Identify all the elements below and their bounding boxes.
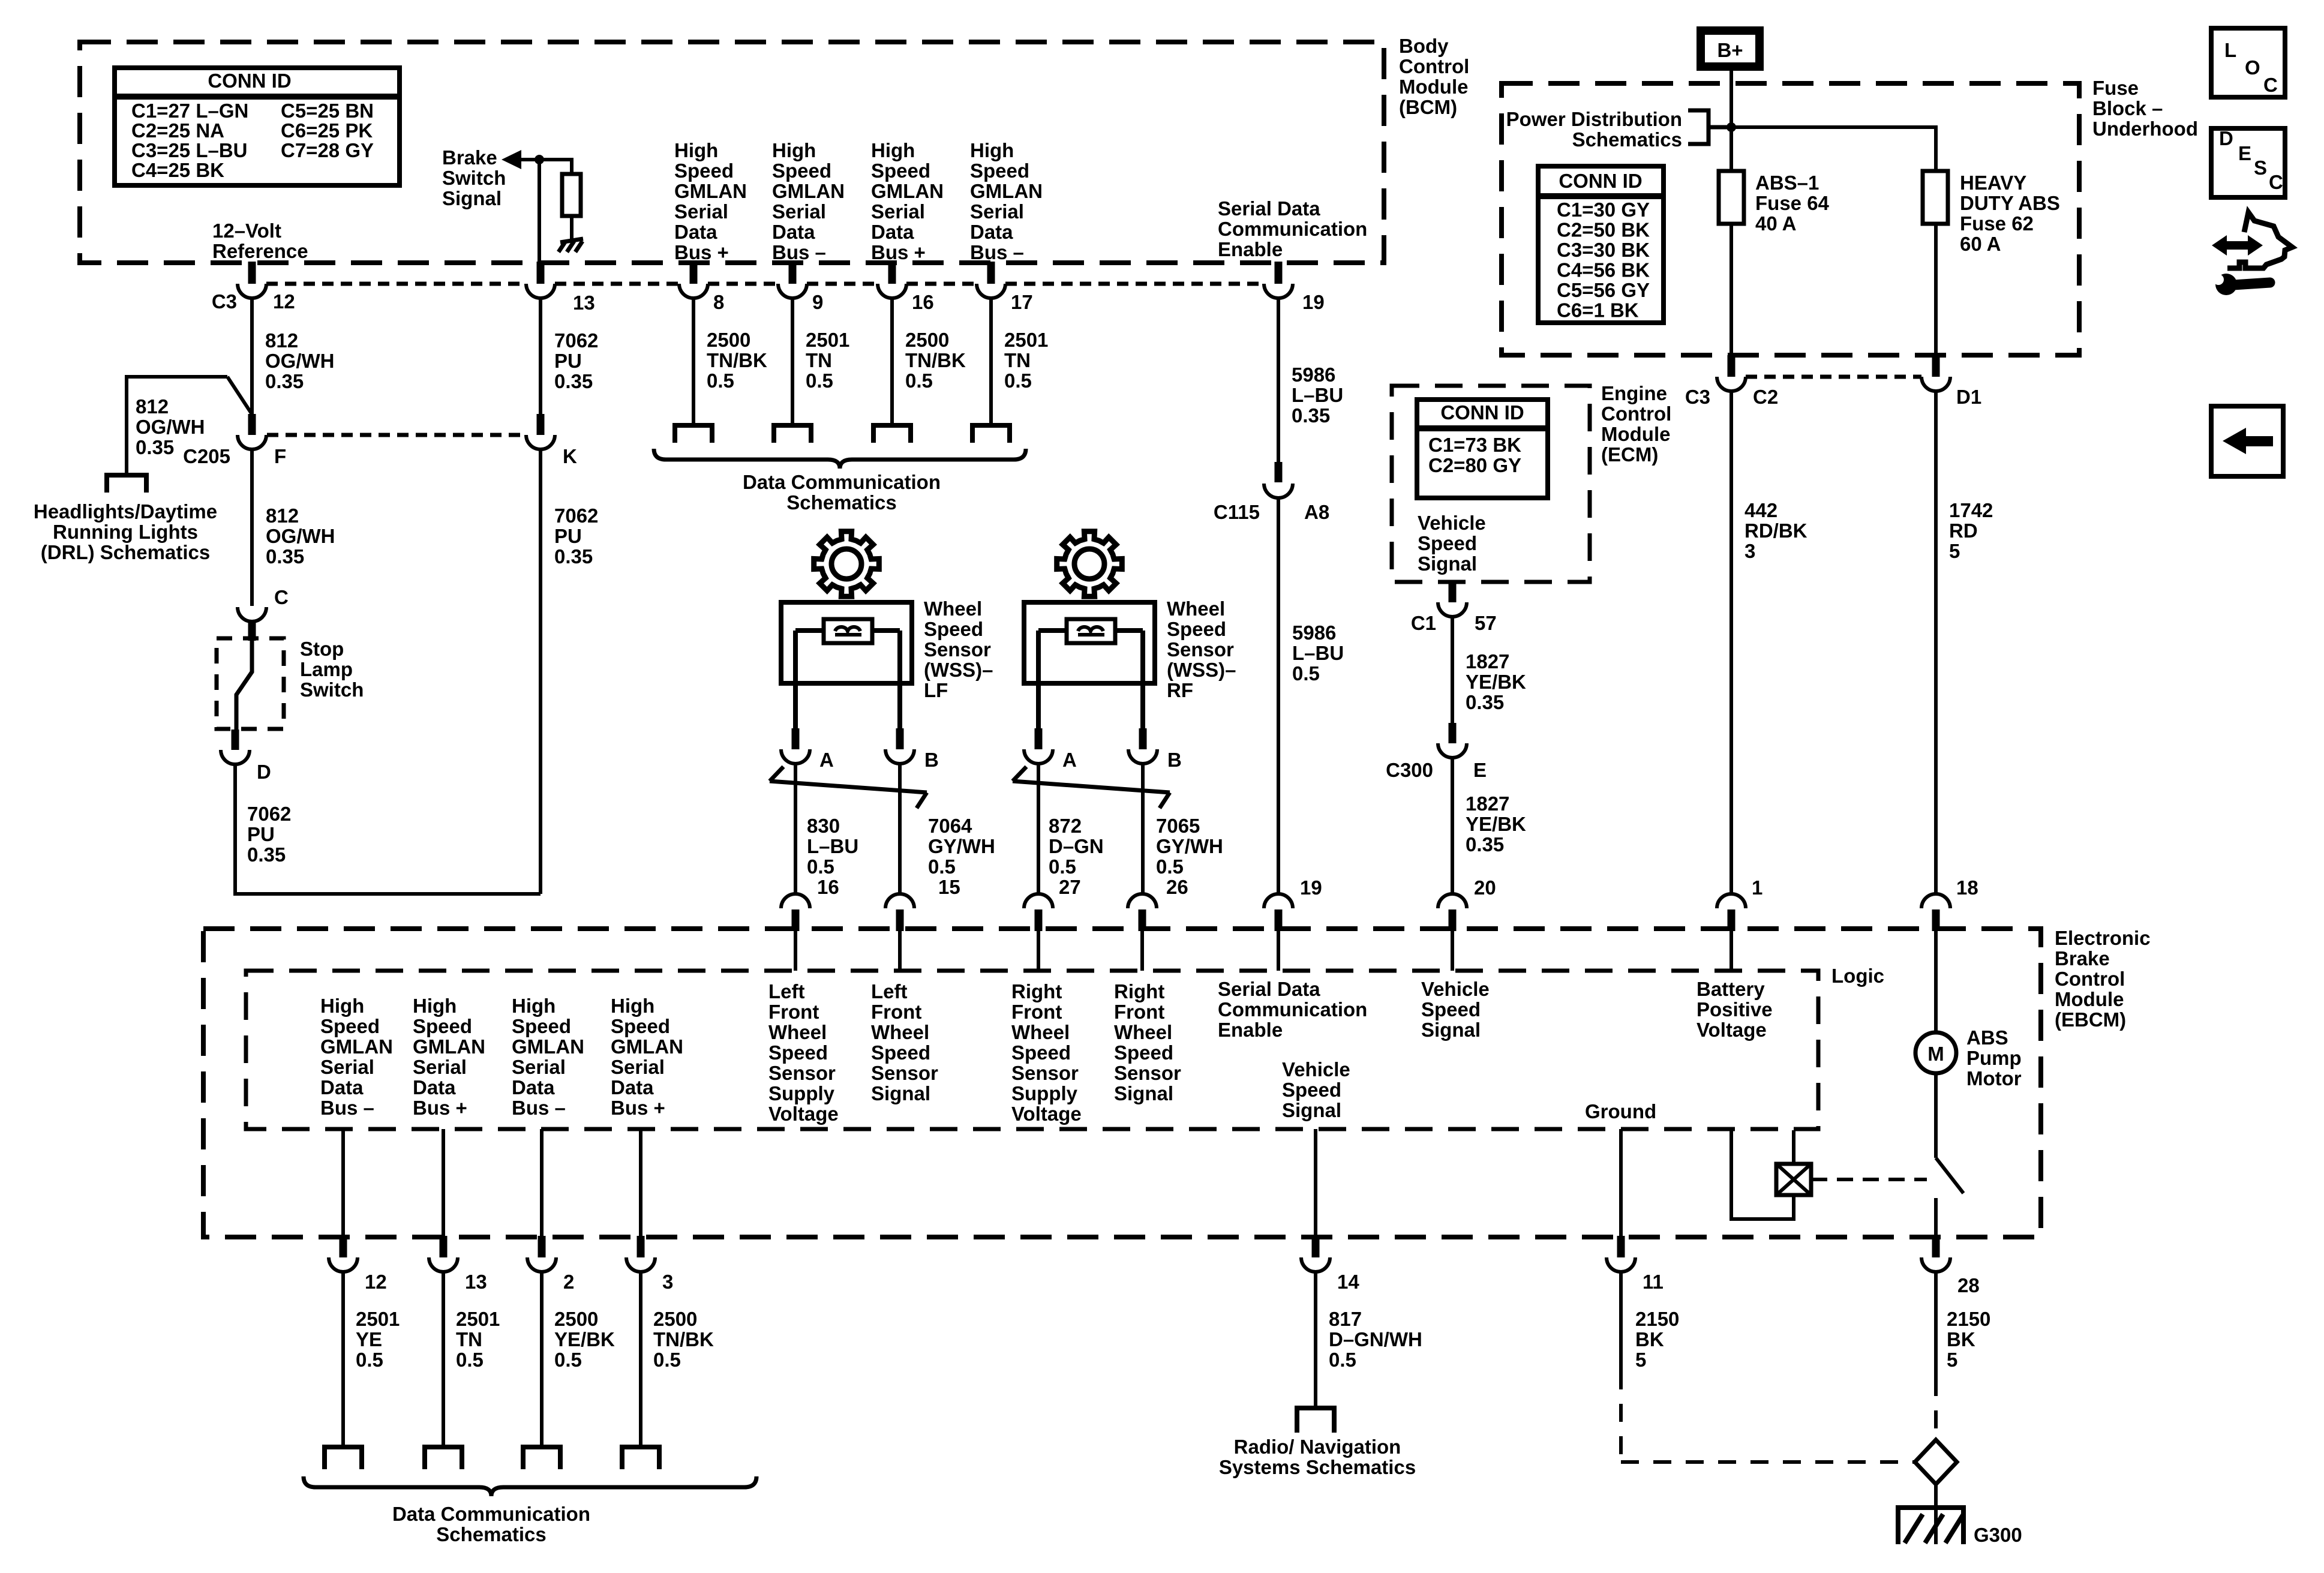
svg-text:Voltage: Voltage [1697, 1019, 1767, 1041]
svg-text:0.5: 0.5 [1329, 1349, 1356, 1371]
svg-text:C3=30 BK: C3=30 BK [1557, 239, 1650, 261]
svg-text:C6=25 PK: C6=25 PK [281, 119, 373, 142]
svg-text:0.5: 0.5 [806, 370, 833, 392]
label: High Speed GMLAN Serial Data Bus - (EBCM 12) [320, 995, 393, 1119]
svg-text:OG/WH: OG/WH [265, 350, 334, 372]
svg-text:57: 57 [1475, 612, 1497, 634]
arrow: brake switch signal (left) [502, 150, 521, 169]
wire: EBCM pin lead into logic at x=1500 [898, 931, 902, 971]
svg-text:5986: 5986 [1292, 364, 1335, 386]
label: 5986 L-BU 0.35 [1292, 364, 1343, 427]
svg-text:Communication: Communication [1218, 998, 1367, 1020]
module box: Stop Lamp Switch [217, 638, 284, 729]
label: Headlights/Daytime Running Lights (DRL) Schematics [34, 500, 217, 563]
wire: heavy duty ABS fuse output [1934, 224, 1938, 356]
svg-text:Front: Front [871, 1001, 921, 1023]
label: Electronic Brake Control Module (EBCM) [2055, 927, 2151, 1031]
svg-text:GMLAN: GMLAN [772, 180, 845, 202]
wire: 7062 PU from D down and right [235, 764, 541, 894]
svg-text:7064: 7064 [928, 815, 972, 837]
connector: C205 pin K [526, 414, 555, 449]
svg-text:GMLAN: GMLAN [674, 180, 747, 202]
svg-text:2150: 2150 [1947, 1308, 1990, 1330]
label: High Speed GMLAN Serial Data Bus + (BCM 16) [871, 139, 944, 263]
svg-text:5986: 5986 [1292, 622, 1336, 644]
svg-text:Voltage: Voltage [768, 1103, 839, 1125]
connector: stop lamp switch pin D [221, 730, 250, 764]
label: pins A / B (LF) [819, 749, 939, 771]
svg-text:Bus –: Bus – [320, 1097, 374, 1119]
connector: EBCM bottom pin 2 [527, 1236, 556, 1272]
svg-text:Serial Data: Serial Data [1218, 197, 1320, 220]
svg-text:0.5: 0.5 [807, 855, 834, 878]
svg-text:ABS: ABS [1966, 1026, 2008, 1049]
label: 7062 PU 0.35 (below K) [554, 505, 598, 568]
bracket: power distribution schematics [1688, 110, 1731, 144]
svg-text:0.35: 0.35 [1466, 691, 1504, 713]
svg-text:Wheel: Wheel [1167, 598, 1225, 620]
table: ECM CONN ID box [1417, 400, 1548, 498]
svg-text:(DRL) Schematics: (DRL) Schematics [41, 541, 210, 563]
svg-text:812: 812 [265, 329, 298, 352]
svg-text:Signal: Signal [1114, 1082, 1173, 1104]
wire: EBCM pin lead into logic at x=2886 [1730, 931, 1733, 971]
svg-text:Speed: Speed [413, 1015, 472, 1037]
svg-text:0.35: 0.35 [554, 370, 593, 392]
svg-text:19: 19 [1300, 876, 1322, 899]
wire: EBCM pin lead into logic at x=1904 [1140, 931, 1144, 971]
svg-text:Electronic: Electronic [2055, 927, 2151, 949]
svg-text:C5=25 BN: C5=25 BN [281, 100, 374, 122]
svg-text:D1: D1 [1956, 386, 1981, 408]
svg-text:D–GN/WH: D–GN/WH [1329, 1328, 1422, 1350]
wire: 7062 PU from K down [539, 449, 542, 894]
svg-text:Serial: Serial [970, 200, 1024, 223]
svg-text:7062: 7062 [554, 505, 598, 527]
wire: 812 OG/WH from F to stop lamp switch [250, 449, 254, 606]
label: High Speed GMLAN Serial Data Bus + (BCM 8) [674, 139, 747, 263]
label: C1 / 57 [1411, 612, 1497, 634]
svg-text:Vehicle: Vehicle [1282, 1058, 1350, 1080]
label: Fuse Block - Underhood [2092, 77, 2198, 140]
svg-text:Systems Schematics: Systems Schematics [1219, 1456, 1416, 1478]
fuse: ABS-1 Fuse 64 40 A [1719, 171, 1744, 224]
label: Data Communication Schematics (bottom) [392, 1503, 590, 1545]
wire: pin 18 to ABS pump motor [1934, 931, 1938, 1032]
terminal: GMLAN off-page at x=1156 [675, 425, 712, 443]
svg-text:Power Distribution: Power Distribution [1506, 108, 1682, 130]
svg-text:High: High [772, 139, 816, 161]
svg-text:C1=73 BK: C1=73 BK [1428, 434, 1521, 456]
icon: gear (tone wheel) RF [1057, 532, 1122, 597]
svg-text:Right: Right [1011, 980, 1062, 1002]
svg-text:Speed: Speed [512, 1015, 571, 1037]
wire: 812 branch diagonal to C205 F [227, 377, 253, 415]
svg-text:Supply: Supply [1011, 1082, 1078, 1104]
connector: WSS-RF pin B [1128, 728, 1157, 764]
svg-text:Data: Data [871, 221, 914, 243]
svg-text:0.5: 0.5 [1004, 370, 1032, 392]
svg-text:5: 5 [1635, 1349, 1646, 1371]
svg-text:Bus +: Bus + [413, 1097, 467, 1119]
svg-text:Signal: Signal [442, 187, 502, 209]
label: High Speed GMLAN Serial Data Bus + (EBCM 13) [413, 995, 485, 1119]
svg-text:2501: 2501 [1004, 329, 1048, 351]
wire: valve top lead [1792, 1130, 1795, 1164]
svg-text:Fuse 62: Fuse 62 [1960, 212, 2034, 235]
wire: 2150 BK ground (pin 28) solid part [1934, 1272, 1938, 1378]
svg-text:Speed: Speed [1167, 618, 1226, 640]
label: Body Control Module (BCM) [1399, 35, 1469, 118]
svg-text:20: 20 [1474, 876, 1496, 899]
wire: EBCM pin lead into logic at x=2421 [1451, 931, 1454, 971]
svg-text:Data: Data [674, 221, 717, 243]
svg-text:GMLAN: GMLAN [320, 1035, 393, 1058]
label: Serial Data Communication Enable (BCM) [1218, 197, 1367, 260]
brace: data communication schematics (top) [654, 449, 1026, 469]
svg-text:812: 812 [266, 505, 299, 527]
svg-text:CONN ID: CONN ID [208, 70, 291, 92]
label: 7062 PU 0.35 (pin 13) [554, 329, 598, 392]
connector: BCM pin 13 [526, 262, 555, 298]
terminal: GMLAN off-page at x=1487 [873, 425, 911, 443]
svg-text:GMLAN: GMLAN [871, 180, 944, 202]
label: ECM CONN ID rows [1428, 434, 1521, 476]
svg-text:Schematics: Schematics [786, 491, 896, 514]
svg-text:Speed: Speed [611, 1015, 670, 1037]
label: High Speed GMLAN Serial Data Bus - (BCM 17) [970, 139, 1043, 263]
svg-text:CONN ID: CONN ID [1440, 401, 1524, 424]
svg-text:Serial: Serial [674, 200, 728, 223]
wire: feed to heavy duty ABS fuse [1731, 127, 1936, 171]
svg-text:Sensor: Sensor [871, 1062, 938, 1084]
svg-text:3: 3 [1744, 540, 1755, 562]
label: 1742 RD 5 [1949, 499, 1993, 562]
node: junction dot on brake switch wire [535, 155, 544, 164]
module box: Fuse Block - Underhood [1502, 83, 2079, 355]
linkage: relay actuation dashed [1811, 1178, 1927, 1181]
svg-text:GY/WH: GY/WH [928, 835, 995, 857]
svg-text:C205: C205 [183, 445, 230, 467]
ground: BCM internal chassis ground [559, 239, 583, 252]
svg-text:0.5: 0.5 [1156, 855, 1184, 878]
svg-text:12: 12 [365, 1271, 387, 1293]
wire: GMLAN lead from logic at x=572 [341, 1129, 345, 1236]
svg-text:Underhood: Underhood [2092, 118, 2198, 140]
connector: WSS-LF pin A [781, 728, 810, 764]
svg-text:E: E [1473, 759, 1487, 781]
svg-text:2501: 2501 [356, 1308, 400, 1330]
svg-text:11: 11 [1643, 1271, 1664, 1293]
symbol: twisted pair (RF) [1013, 767, 1170, 808]
label: Serial Data Communication Enable (EBCM) [1218, 978, 1367, 1041]
connector: stop lamp switch pin C [238, 607, 266, 641]
icon: vehicle with double arrow and wrench [2212, 212, 2292, 295]
connector: EBCM bottom pin 3 [626, 1236, 655, 1272]
svg-text:26: 26 [1166, 876, 1188, 898]
svg-text:High: High [413, 995, 457, 1017]
svg-text:1827: 1827 [1466, 650, 1509, 673]
label: BCM CONN ID rows [131, 100, 374, 181]
module box: Body Control Module (BCM) [80, 42, 1384, 263]
icon: LOC box [2211, 28, 2285, 97]
label: Brake Switch Signal [442, 146, 506, 209]
wire: GMLAN bus at x=1156 [692, 298, 695, 425]
svg-text:F: F [274, 445, 286, 467]
svg-text:2501: 2501 [456, 1308, 500, 1330]
svg-text:Speed: Speed [970, 160, 1029, 182]
svg-text:1742: 1742 [1949, 499, 1993, 521]
svg-text:High: High [970, 139, 1014, 161]
wire: 2150 BK ground (pin 11) dashed part [1621, 1371, 1915, 1462]
label: 2501 TN 0.5 [806, 329, 849, 392]
label: C300 / E [1386, 759, 1487, 781]
svg-text:830: 830 [807, 815, 840, 837]
svg-text:0.35: 0.35 [1292, 404, 1330, 427]
svg-text:Serial: Serial [871, 200, 925, 223]
valve: pump motor relay coil (box with X) [1776, 1164, 1811, 1195]
wire: logic to pump motor relay coil loop [1731, 1130, 1794, 1219]
svg-text:GY/WH: GY/WH [1156, 835, 1223, 857]
svg-text:K: K [563, 445, 577, 467]
svg-text:B: B [924, 749, 939, 771]
svg-text:Stop: Stop [300, 638, 344, 660]
svg-text:Wheel: Wheel [924, 598, 982, 620]
label: C115 / A8 [1214, 501, 1329, 523]
svg-text:12: 12 [273, 290, 295, 313]
label: Left Front Wheel Speed Sensor Supply Voltage [768, 980, 839, 1125]
module box: Electronic Brake Control Module (EBCM) [203, 929, 2041, 1237]
wire: GMLAN to data comm schematics at x=572 [341, 1272, 345, 1447]
label: 830 L-BU 0.5 / 16 [807, 815, 858, 898]
label: ABS Pump Motor [1966, 1026, 2022, 1089]
label: 1827 YE/BK 0.35 (lower) [1466, 792, 1526, 855]
svg-text:0.35: 0.35 [554, 545, 593, 568]
connector: BCM pin 9 [778, 262, 807, 298]
table: BCM CONN ID box [115, 68, 400, 185]
svg-text:Signal: Signal [1421, 1019, 1481, 1041]
svg-text:12–Volt: 12–Volt [212, 220, 281, 242]
svg-text:Voltage: Voltage [1011, 1103, 1082, 1125]
label: 7062 PU 0.35 (below D) [247, 803, 291, 866]
svg-text:C6=1 BK: C6=1 BK [1557, 299, 1639, 322]
svg-text:Right: Right [1114, 980, 1164, 1002]
svg-text:Block –: Block – [2092, 97, 2163, 119]
svg-text:RD/BK: RD/BK [1744, 520, 1807, 542]
label: Wheel Speed Sensor (WSS)-LF [924, 598, 993, 701]
svg-text:Supply: Supply [768, 1082, 835, 1104]
svg-text:Sensor: Sensor [768, 1062, 836, 1084]
svg-text:Enable: Enable [1218, 1019, 1283, 1041]
svg-text:Speed: Speed [924, 618, 983, 640]
label: connector C3 / pin 12 [212, 290, 295, 313]
label: Radio/ Navigation Systems Schematics [1219, 1436, 1416, 1478]
svg-text:C300: C300 [1386, 759, 1433, 781]
svg-text:Bus –: Bus – [970, 241, 1024, 263]
svg-text:RF: RF [1167, 679, 1193, 701]
label: 2500 TN/BK 0.5 [653, 1308, 714, 1371]
svg-text:Headlights/Daytime: Headlights/Daytime [34, 500, 217, 523]
svg-text:TN/BK: TN/BK [707, 349, 767, 371]
svg-text:GMLAN: GMLAN [512, 1035, 584, 1058]
svg-text:Bus +: Bus + [674, 241, 729, 263]
wire: WSS-RF pin B lead [1140, 631, 1145, 728]
connector: WSS-LF pin B [885, 728, 914, 764]
wire: switch to EBCM pin 28 [1934, 1198, 1938, 1237]
svg-text:PU: PU [554, 525, 582, 547]
wire: B+ feed into fuse block [1730, 67, 1733, 171]
icon: back arrow box [2211, 406, 2283, 476]
svg-text:872: 872 [1049, 815, 1082, 837]
svg-text:Front: Front [1011, 1001, 1062, 1023]
svg-text:Sensor: Sensor [1011, 1062, 1079, 1084]
svg-text:C3: C3 [212, 290, 237, 313]
module box: Wheel Speed Sensor (WSS)-RF [1024, 602, 1155, 683]
svg-text:0.5: 0.5 [1292, 662, 1320, 685]
wire: motor to switch [1934, 1073, 1938, 1158]
label: Engine Control Module (ECM) [1601, 382, 1671, 466]
svg-text:0.35: 0.35 [266, 545, 304, 568]
wire: 7062 PU from pin 13 [539, 298, 542, 415]
svg-text:Speed: Speed [1114, 1041, 1173, 1064]
svg-text:LF: LF [924, 679, 948, 701]
module box: Engine Control Module (ECM) [1392, 386, 1590, 582]
svg-text:1: 1 [1752, 876, 1762, 899]
svg-text:Body: Body [1399, 35, 1449, 57]
wire: GMLAN bus at x=1652 [989, 298, 993, 425]
label: 2500 TN/BK 0.5 [707, 329, 767, 392]
svg-text:Sensor: Sensor [924, 638, 991, 661]
svg-text:Speed: Speed [1421, 998, 1481, 1020]
svg-text:A: A [1062, 749, 1077, 771]
svg-text:Bus –: Bus – [772, 241, 826, 263]
svg-text:L–BU: L–BU [1292, 384, 1343, 406]
svg-text:Control: Control [1601, 403, 1671, 425]
wire: LF sensor wires to EBCM [795, 764, 900, 894]
svg-text:C2=80 GY: C2=80 GY [1428, 454, 1521, 476]
label: 1827 YE/BK 0.35 (upper) [1466, 650, 1526, 713]
svg-text:BK: BK [1947, 1328, 1975, 1350]
svg-text:Data Communication: Data Communication [743, 471, 941, 493]
connector: BCM pin 12 [238, 262, 266, 298]
svg-text:C115: C115 [1214, 501, 1260, 523]
connector: EBCM top pin 27 [1024, 894, 1053, 931]
svg-text:18: 18 [1956, 876, 1978, 899]
svg-text:Wheel: Wheel [1011, 1021, 1070, 1043]
svg-text:TN: TN [456, 1328, 482, 1350]
svg-text:Data: Data [413, 1076, 456, 1098]
svg-text:0.35: 0.35 [265, 370, 304, 392]
svg-text:0.5: 0.5 [554, 1349, 582, 1371]
label: Wheel Speed Sensor (WSS)-RF [1167, 598, 1236, 701]
label: Data Communication Schematics (top) [743, 471, 941, 514]
svg-text:0.5: 0.5 [928, 855, 956, 878]
svg-text:Serial Data: Serial Data [1218, 978, 1320, 1000]
connector: EBCM bottom pin 28 [1921, 1236, 1950, 1272]
label: 2501 TN 0.5 [456, 1308, 500, 1371]
svg-text:Sensor: Sensor [1167, 638, 1234, 661]
terminal: GMLAN off-page at x=1652 [972, 425, 1010, 443]
svg-text:(EBCM): (EBCM) [2055, 1008, 2126, 1031]
label: 442 RD/BK 3 [1744, 499, 1807, 562]
wire: brake switch jumper horizontal [521, 158, 572, 161]
svg-text:DUTY ABS: DUTY ABS [1960, 192, 2060, 214]
svg-text:Wheel: Wheel [871, 1021, 929, 1043]
connector: C205 pin F [238, 414, 266, 449]
wire: 5986 L-BU to EBCM pin 19 [1277, 498, 1280, 894]
svg-text:C3=25 L–BU: C3=25 L–BU [131, 139, 248, 161]
svg-text:High: High [320, 995, 364, 1017]
svg-text:Fuse: Fuse [2092, 77, 2139, 99]
svg-text:D–GN: D–GN [1049, 835, 1104, 857]
svg-text:Control: Control [1399, 55, 1469, 77]
wire: 1827 YE/BK from ECM [1451, 617, 1454, 723]
svg-text:17: 17 [1011, 291, 1033, 313]
svg-text:High: High [512, 995, 556, 1017]
connector: EBCM bottom pin 11 [1607, 1236, 1635, 1272]
motor: ABS pump motor [1915, 1032, 1956, 1073]
svg-text:8: 8 [713, 291, 724, 313]
svg-text:C: C [2269, 171, 2283, 193]
connector: EBCM bottom pin 12 [329, 1236, 358, 1272]
svg-text:2500: 2500 [707, 329, 750, 351]
svg-text:Serial: Serial [512, 1056, 566, 1078]
svg-text:7065: 7065 [1156, 815, 1200, 837]
svg-text:0.35: 0.35 [136, 436, 174, 458]
connector: BCM pin 17 [977, 262, 1005, 298]
svg-text:Bus +: Bus + [871, 241, 926, 263]
svg-text:YE: YE [356, 1328, 382, 1350]
label: High Speed GMLAN Serial Data Bus - (EBCM 2) [512, 995, 584, 1119]
terminal: GMLAN off-page at x=1321 [774, 425, 811, 443]
label: 7065 GY/WH 0.5 / 26 [1156, 815, 1223, 898]
wire: WSS-LF pin B lead [897, 631, 902, 728]
svg-text:O: O [2245, 56, 2260, 79]
wire: resistor to internal ground [570, 216, 574, 240]
label: Stop Lamp Switch [300, 638, 364, 701]
svg-text:Data: Data [512, 1076, 555, 1098]
svg-text:Data: Data [772, 221, 815, 243]
svg-text:Module: Module [1399, 76, 1468, 98]
svg-text:Speed: Speed [871, 160, 930, 182]
connector: BCM pin 16 [878, 262, 906, 298]
wire: ground lead inside EBCM (pin 11) [1619, 1129, 1623, 1237]
svg-text:Signal: Signal [871, 1082, 930, 1104]
svg-text:Front: Front [1114, 1001, 1164, 1023]
svg-text:Speed: Speed [772, 160, 831, 182]
svg-text:(ECM): (ECM) [1601, 443, 1658, 466]
svg-text:Vehicle: Vehicle [1418, 512, 1486, 534]
svg-text:Engine: Engine [1601, 382, 1667, 404]
svg-text:1827: 1827 [1466, 792, 1509, 815]
svg-text:TN/BK: TN/BK [905, 349, 966, 371]
label: High Speed GMLAN Serial Data Bus - (BCM 9) [772, 139, 845, 263]
connector: EBCM top pin 15 [885, 894, 914, 931]
label: 2500 YE/BK 0.5 [554, 1308, 615, 1371]
svg-text:C7=28 GY: C7=28 GY [281, 139, 374, 161]
svg-text:Wheel: Wheel [768, 1021, 827, 1043]
label: ABS-1 Fuse 64 40 A [1755, 172, 1830, 235]
wire: 812 branch down to DRL bracket [125, 375, 128, 475]
svg-text:TN: TN [1004, 349, 1031, 371]
svg-text:S: S [2254, 157, 2267, 179]
connector: C115 pin A8 [1264, 462, 1293, 498]
svg-text:Left: Left [768, 980, 805, 1002]
label: C205 / F / K [183, 445, 577, 467]
wire: 1742 RD to EBCM pin 18 [1934, 391, 1938, 894]
svg-text:442: 442 [1744, 499, 1777, 521]
label: 872 D-GN 0.5 / 27 [1049, 815, 1104, 898]
